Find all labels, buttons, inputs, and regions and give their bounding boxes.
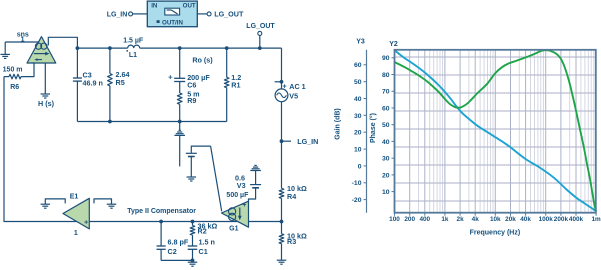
wire rail L1 to corner (140, 47, 282, 49)
wire rail corner down to V5 (281, 48, 283, 89)
svg-text:60: 60 (354, 62, 362, 69)
svg-text:80: 80 (382, 72, 390, 79)
svg-text:C2: C2 (168, 247, 177, 256)
node compensator ground junction (191, 259, 195, 263)
ground E1 right input (94, 199, 112, 204)
svg-text:R4: R4 (287, 192, 296, 201)
svg-text:60: 60 (382, 105, 390, 112)
chart: loop gain/phase bode plot (335, 39, 601, 237)
node G1 output junction (280, 220, 284, 224)
node R9 bottom junction (178, 120, 182, 124)
capacitor C3 (76, 48, 78, 78)
resistor R2 (192, 222, 194, 226)
svg-text:H (s): H (s) (38, 99, 55, 108)
node C3/rail junction (76, 46, 80, 50)
svg-text:LG_IN: LG_IN (107, 12, 128, 19)
node LG_IN (injection point) (280, 139, 284, 143)
rail tap marker (179, 122, 181, 131)
rail marker above V3 (254, 164, 256, 166)
ground under battery (187, 176, 197, 178)
svg-text:150 m: 150 m (3, 66, 23, 73)
svg-text:OUT: OUT (183, 2, 196, 9)
svg-text:90: 90 (382, 55, 390, 62)
svg-text:C1: C1 (199, 247, 208, 256)
ground H(s) (41, 93, 51, 95)
svg-text:1k: 1k (441, 216, 449, 223)
svg-text:1: 1 (21, 36, 25, 43)
svg-text:30: 30 (354, 113, 362, 120)
svg-text:+: + (282, 83, 286, 90)
axis Y2 phase (392, 57, 395, 59)
svg-text:4k: 4k (472, 216, 480, 223)
curve gain (teal) (395, 50, 596, 211)
svg-text:E1: E1 (70, 193, 79, 200)
svg-text:R2: R2 (198, 227, 207, 236)
node R5 bottom junction (108, 120, 112, 124)
svg-text:Phase (°): Phase (°) (369, 113, 377, 143)
wire left feedback rail (4, 77, 63, 222)
svg-text:LG_IN: LG_IN (297, 137, 318, 146)
svg-text:LG_OUT: LG_OUT (246, 23, 275, 30)
svg-text:-20: -20 (352, 197, 362, 204)
terminal LG_IN (129, 12, 133, 16)
svg-text:1.5 µF: 1.5 µF (123, 37, 144, 44)
capacitor C6 (179, 48, 181, 78)
node C6 junction (178, 46, 182, 50)
svg-text:Type II Compensator: Type II Compensator (127, 208, 196, 215)
svg-text:40: 40 (354, 96, 362, 103)
svg-text:70: 70 (382, 89, 390, 96)
axis Y3 gain (366, 50, 368, 213)
svg-text:R3: R3 (287, 237, 296, 246)
svg-text:6.8 pF: 6.8 pF (168, 238, 189, 247)
svg-text:-10: -10 (352, 180, 362, 187)
svg-text:OUT/IN: OUT/IN (162, 19, 183, 26)
svg-text:0: 0 (358, 163, 362, 170)
node C2 junction (159, 220, 163, 224)
svg-text:20k: 20k (505, 216, 516, 223)
svg-text:50: 50 (354, 79, 362, 86)
svg-text:C6: C6 (187, 81, 196, 90)
wire C2 bottom link (161, 259, 192, 261)
svg-text:R9: R9 (187, 96, 196, 105)
source V5 (AC 1) (275, 89, 288, 102)
wire probe block to LG_OUT terminal (197, 13, 207, 15)
resistor R1 (226, 48, 228, 77)
svg-text:50: 50 (382, 122, 390, 129)
ground (top left) (4, 42, 6, 54)
svg-text:1m: 1m (591, 216, 601, 223)
svg-text:L1: L1 (129, 52, 137, 59)
svg-text:LG_OUT: LG_OUT (214, 10, 244, 19)
axis X frequency (394, 213, 396, 216)
wire top rail (77, 47, 127, 49)
svg-text:400k: 400k (569, 216, 584, 223)
node V5 plus stub (275, 81, 282, 83)
wire sns to H(s) ground (44, 63, 46, 94)
svg-text:40: 40 (382, 139, 390, 146)
wire ground to sns input (5, 41, 39, 43)
node R1 junction (225, 46, 229, 50)
loop-gain probe block U-probe (147, 1, 197, 27)
svg-text:+: + (242, 202, 246, 209)
svg-text:Y2: Y2 (389, 41, 398, 48)
svg-text:+: + (168, 72, 173, 81)
svg-text:200k: 200k (554, 216, 569, 223)
svg-text:1: 1 (74, 230, 78, 237)
svg-text:30: 30 (382, 156, 390, 163)
node R5 junction (108, 46, 112, 50)
svg-text:R5: R5 (116, 78, 125, 87)
wire LG_OUT to rail (259, 35, 261, 48)
chart major gridlines (409, 50, 411, 213)
svg-text:1.5 n: 1.5 n (199, 238, 215, 247)
capacitor C2 (160, 222, 162, 247)
svg-text:20: 20 (354, 130, 362, 137)
resistor R4 (281, 141, 283, 188)
wire V3 to G1 plus (249, 188, 256, 202)
svg-text:R1: R1 (231, 81, 240, 90)
svg-text:10: 10 (354, 147, 362, 154)
svg-text:500 µF: 500 µF (226, 192, 249, 199)
capacitor C1 (192, 235, 194, 246)
svg-text:20: 20 (382, 172, 390, 179)
svg-text:400: 400 (419, 216, 430, 223)
ground under R3 (277, 259, 287, 261)
svg-text:46.9 n: 46.9 n (83, 79, 103, 88)
chart frame (395, 50, 596, 213)
svg-text:R6: R6 (10, 84, 19, 91)
svg-text:10k: 10k (490, 216, 501, 223)
wire compensator rail (63, 221, 282, 223)
svg-text:Ro (s): Ro (s) (192, 55, 213, 64)
wire V5 to LG_IN node (281, 102, 283, 142)
svg-text:IN: IN (151, 2, 158, 9)
svg-text:G1: G1 (229, 225, 238, 232)
svg-text:200: 200 (404, 216, 415, 223)
ground under C1 (188, 261, 198, 263)
svg-text:V3: V3 (237, 181, 246, 190)
ground E1 left input (45, 199, 65, 204)
node R2 junction (191, 220, 195, 224)
inductor L1 (128, 45, 140, 48)
svg-text:Frequency (Hz): Frequency (Hz) (470, 230, 521, 237)
resistor R9 (179, 82, 181, 94)
resistor R6 (4, 76, 9, 78)
chart minor gridlines (418, 50, 420, 213)
wire LG_IN terminal to probe block (133, 13, 148, 15)
svg-text:AC 1: AC 1 (289, 82, 305, 91)
svg-text:V5: V5 (289, 92, 298, 101)
svg-text:100k: 100k (539, 216, 554, 223)
node LG_OUT drop junction (258, 46, 262, 50)
resistor R3 (281, 222, 283, 234)
curve phase (green) (395, 50, 597, 211)
battery (reference) (191, 146, 210, 153)
svg-text:+: + (84, 219, 88, 226)
terminal LG_OUT (207, 12, 211, 16)
wire sns output up-over to C3 node (48, 37, 77, 48)
transconductance source G1 (222, 201, 249, 227)
svg-text:2k: 2k (457, 216, 465, 223)
svg-text:Gain (dB): Gain (dB) (335, 108, 342, 140)
resistor R5 (109, 48, 111, 73)
current sense probe sns (27, 37, 56, 63)
svg-text:Y3: Y3 (356, 39, 365, 46)
battery V3 (250, 184, 261, 186)
svg-text:100: 100 (389, 216, 400, 223)
wire diagonal battery to G1 (211, 146, 222, 211)
wire bottom rail (77, 121, 226, 123)
svg-text:40k: 40k (520, 216, 531, 223)
svg-text:10: 10 (382, 189, 390, 196)
